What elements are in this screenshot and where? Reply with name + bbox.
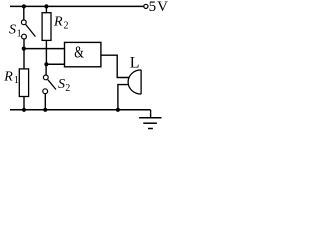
- svg-text:R: R: [53, 14, 63, 29]
- ground: [139, 118, 161, 129]
- svg-text:2: 2: [64, 21, 69, 32]
- svg-text:2: 2: [65, 83, 70, 94]
- wire speaker bottom lead: [118, 85, 129, 110]
- svg-text:1: 1: [17, 29, 22, 40]
- node A junction: [22, 47, 26, 51]
- wire bottom ground rail: [10, 109, 151, 111]
- svg-text:5V: 5V: [149, 0, 169, 15]
- node junction speaker/bottom-rail: [116, 108, 120, 112]
- wire R2 top lead: [45, 6, 47, 12]
- wire gate output to speaker top: [101, 55, 129, 77]
- svg-text:L: L: [130, 54, 140, 71]
- wire top +5V rail: [10, 5, 144, 7]
- speaker L: [128, 70, 141, 94]
- wire R2 bottom lead: [45, 40, 47, 64]
- wire S1 lower lead: [23, 39, 25, 49]
- switch S1: [21, 20, 35, 39]
- node junction S2/bottom-rail: [43, 108, 47, 112]
- wire R1 bottom lead: [23, 97, 25, 110]
- wire gate input 2: [46, 63, 64, 65]
- wire S2 upper lead: [45, 64, 47, 75]
- op-amp U1 AND gate box: [65, 42, 101, 66]
- switch S2: [43, 75, 56, 94]
- node junction R1/bottom-rail: [22, 108, 26, 112]
- svg-text:R: R: [3, 70, 13, 85]
- node junction R2/top-rail: [44, 4, 48, 8]
- svg-text:1: 1: [14, 75, 19, 86]
- node B junction: [44, 62, 48, 66]
- wire gate input 1: [24, 48, 65, 50]
- svg-text:S: S: [9, 23, 16, 38]
- wire S1 upper lead: [23, 6, 25, 20]
- resistor R1: [19, 69, 28, 97]
- wire ground lead: [150, 110, 152, 118]
- resistor R2: [42, 13, 51, 41]
- svg-text:&: &: [74, 42, 84, 61]
- wire S2 lower lead: [44, 94, 46, 110]
- wire R1 top lead: [23, 49, 25, 69]
- terminal 5V: [144, 4, 148, 8]
- svg-text:S: S: [58, 77, 65, 92]
- node junction S1/top-rail: [22, 4, 26, 8]
